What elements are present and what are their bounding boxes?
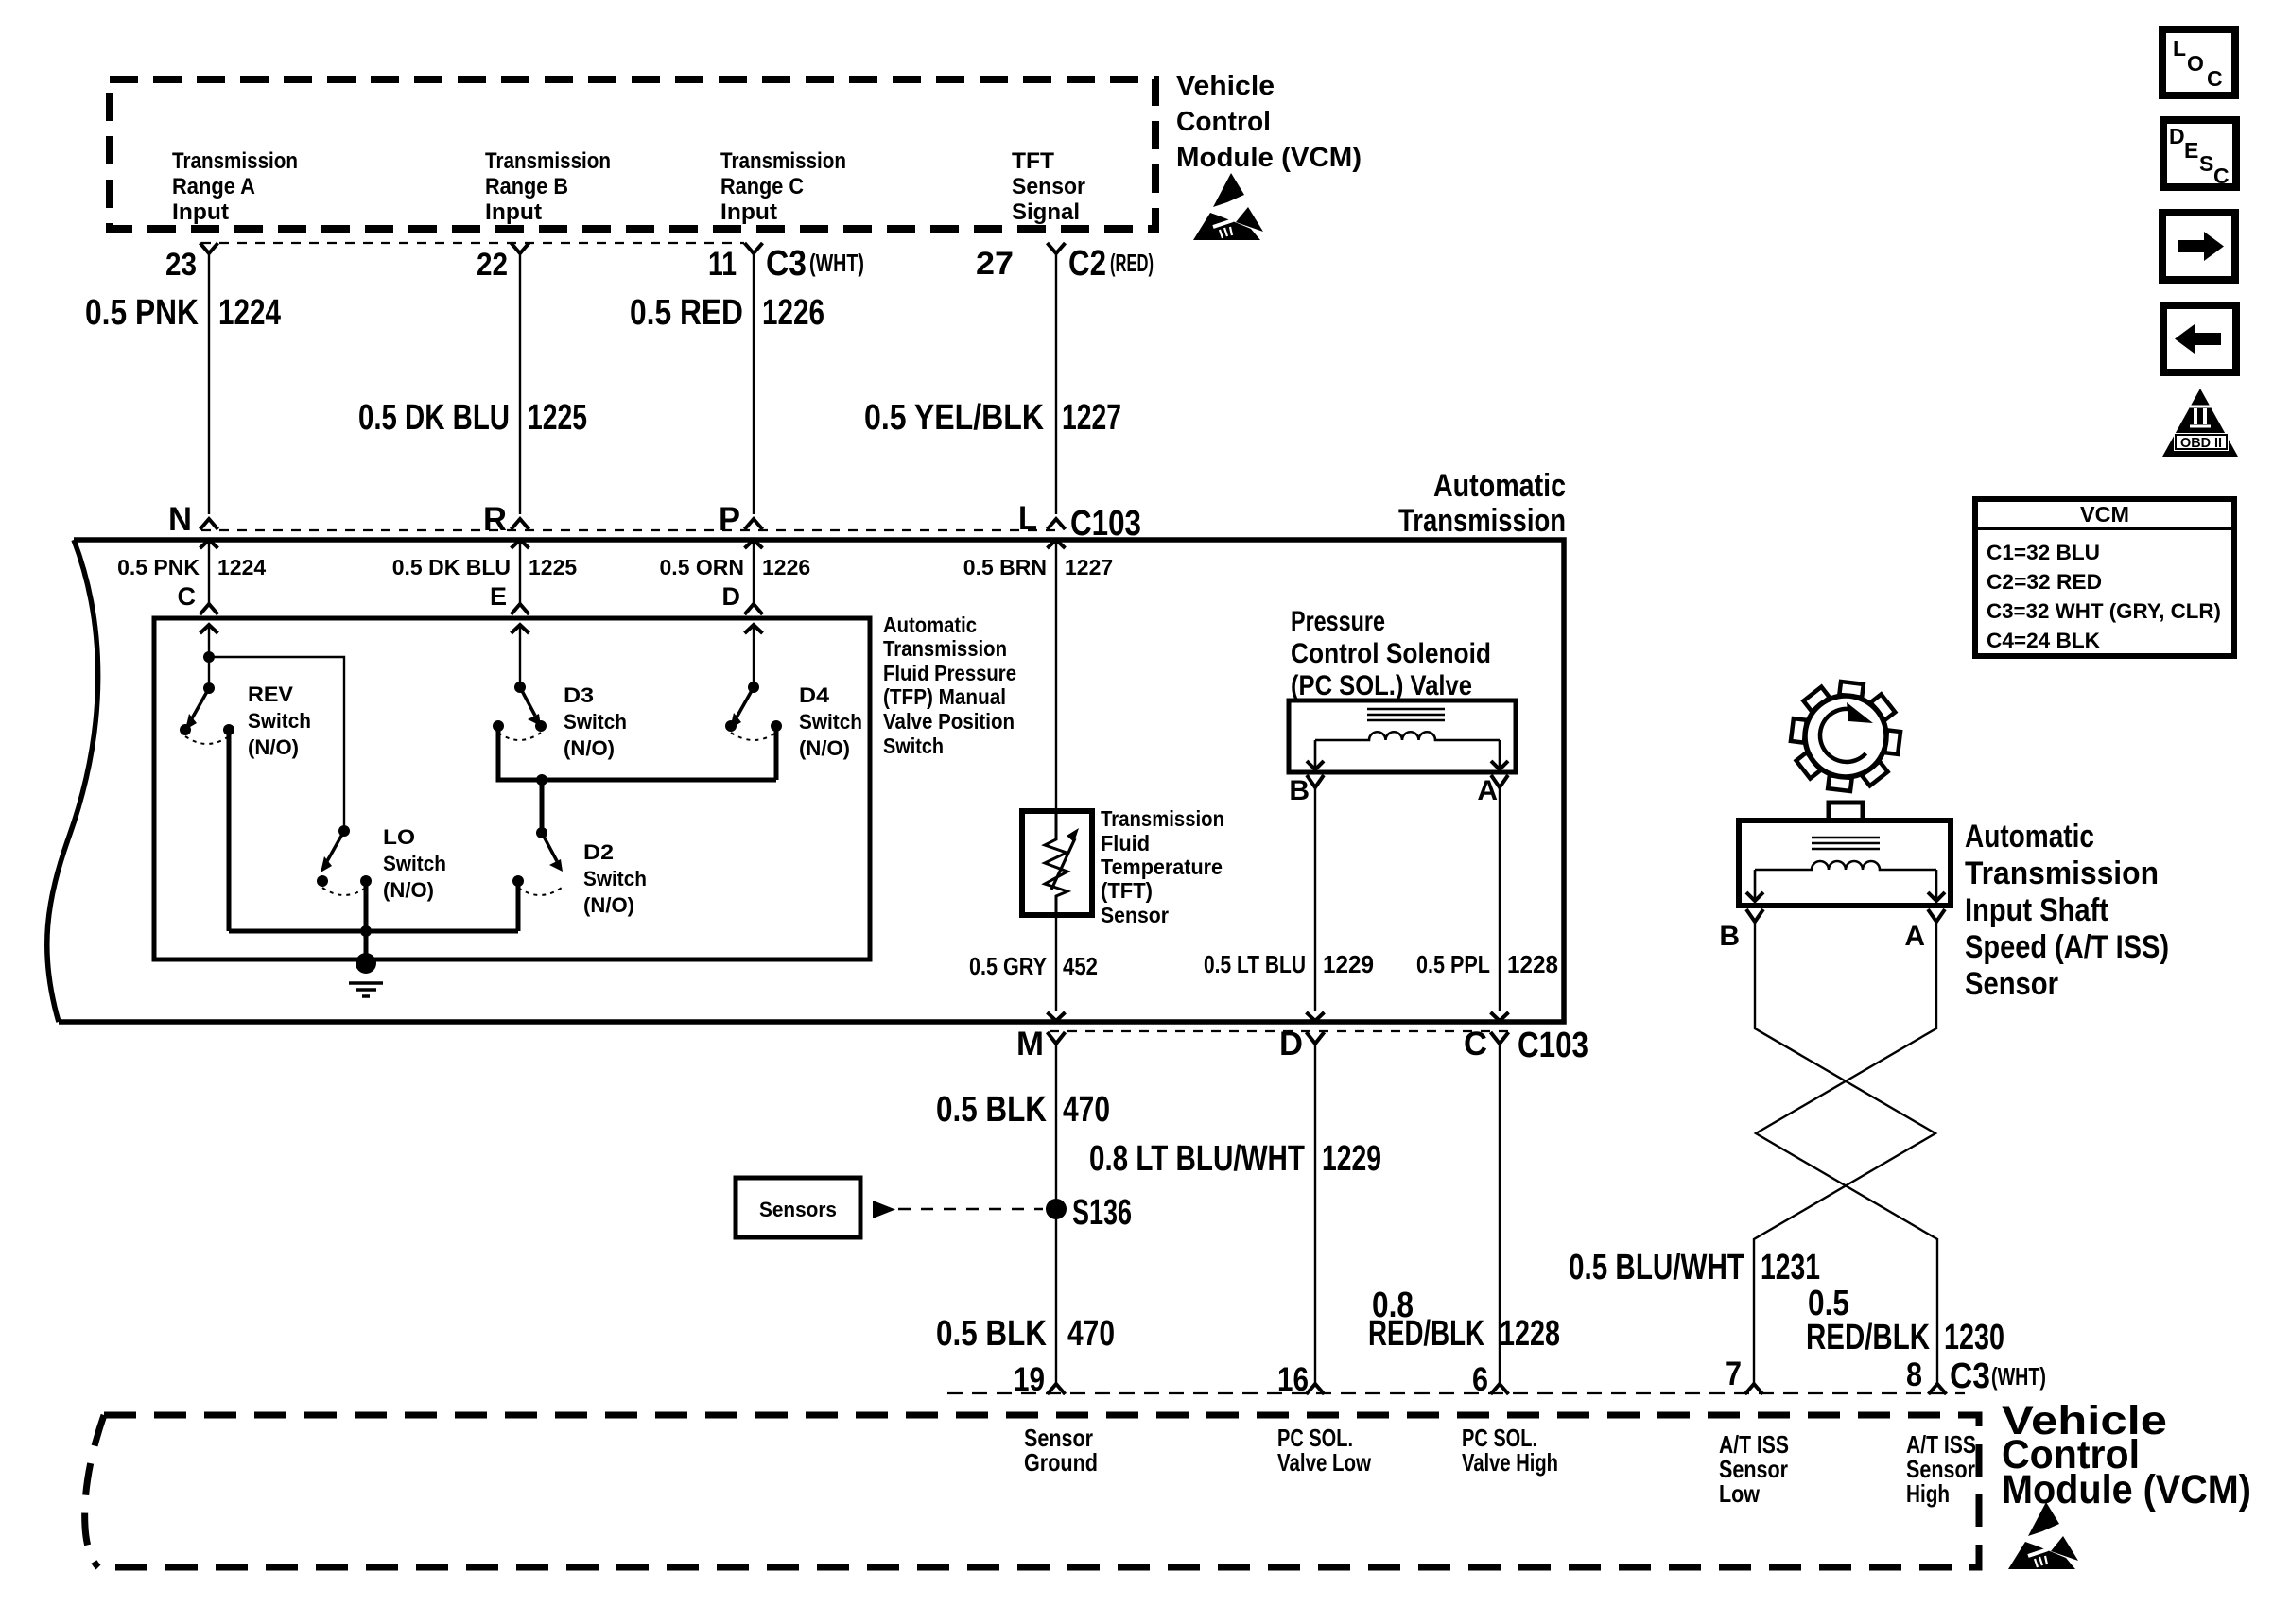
svg-text:0.5 BRN: 0.5 BRN [963,555,1047,579]
svg-text:0.5 BLU/WHT: 0.5 BLU/WHT [1569,1248,1744,1287]
connector label C3 (WHT) bottom [1950,1356,2046,1396]
svg-text:D: D [722,582,741,611]
svg-text:1228: 1228 [1500,1314,1560,1354]
svg-text:Valve High: Valve High [1462,1448,1558,1477]
svg-text:L: L [2173,36,2186,60]
wire label 0.5 BLK 470 (upper) [936,1090,1110,1130]
wire common bus to ground [229,929,518,934]
svg-text:452: 452 [1063,952,1098,980]
svg-text:High: High [1906,1479,1950,1508]
svg-text:Transmission: Transmission [1965,855,2159,891]
svg-text:D4: D4 [799,683,830,707]
svg-text:A: A [1904,921,1925,952]
svg-text:B: B [1719,921,1740,952]
svg-text:Range B: Range B [485,174,568,199]
svg-text:Sensor: Sensor [1965,966,2058,1002]
svg-text:Valve Low: Valve Low [1277,1448,1372,1477]
node: splice S136 [1046,1193,1132,1233]
wire label 0.5 BRN 1227 (inner) [963,555,1113,579]
svg-text:C1=32 BLU: C1=32 BLU [1987,541,2100,564]
svg-text:0.5 RED: 0.5 RED [630,293,743,333]
svg-text:Speed (A/T ISS): Speed (A/T ISS) [1965,929,2169,965]
svg-text:C2=32 RED: C2=32 RED [1987,570,2102,594]
svg-text:1231: 1231 [1761,1248,1820,1287]
wire label 0.5 RED 1226 (upper) [630,293,824,333]
svg-text:Automatic: Automatic [883,613,977,637]
svg-text:M: M [1016,1026,1044,1063]
svg-text:C3=32 WHT (GRY, CLR): C3=32 WHT (GRY, CLR) [1987,599,2221,623]
svg-text:0.5 PNK: 0.5 PNK [117,555,200,579]
svg-text:(N/O): (N/O) [248,735,299,759]
svg-text:VCM: VCM [2080,502,2129,527]
svg-text:R: R [483,501,507,538]
wire M fork below C103 [1048,1032,1066,1394]
svg-text:Pressure: Pressure [1291,606,1385,637]
svg-text:C: C [178,582,197,611]
svg-text:(TFT): (TFT) [1101,878,1153,903]
wire label 0.5 YEL/BLK 1227 (upper) [864,398,1121,438]
icon OBD II triangle [2162,389,2238,457]
wire 1226 upper segment (Range C, pin 11 to P) [745,243,763,529]
svg-text:REV: REV [248,682,293,706]
svg-text:L: L [1018,500,1037,537]
svg-text:C4=24 BLK: C4=24 BLK [1987,629,2100,652]
wire label 0.5 PPL 1228 [1416,950,1558,978]
svg-text:(N/O): (N/O) [799,736,850,760]
svg-text:Range C: Range C [720,174,804,199]
svg-text:Automatic: Automatic [1433,468,1566,504]
svg-text:0.5 DK BLU: 0.5 DK BLU [392,555,511,579]
svg-text:Range A: Range A [172,174,255,199]
svg-text:0.5 PPL: 0.5 PPL [1416,950,1490,978]
wire 1226 into AT box (male pin arrow at P) [745,540,763,614]
svg-text:(N/O): (N/O) [383,878,434,902]
Sensors box [736,1178,860,1237]
svg-text:1224: 1224 [218,293,281,333]
svg-text:Fluid: Fluid [1101,831,1150,855]
svg-text:1224: 1224 [217,555,266,579]
svg-text:C3: C3 [1950,1356,1990,1396]
svg-text:Switch: Switch [799,710,862,734]
wire label 0.5 BLK 470 (lower) [936,1314,1115,1354]
svg-text:(PC SOL.) Valve: (PC SOL.) Valve [1291,670,1472,701]
svg-text:D: D [1279,1026,1303,1063]
svg-text:C2: C2 [1068,244,1106,284]
svg-text:0.5 PNK: 0.5 PNK [85,293,199,333]
wire label 0.8 LT BLU/WHT 1229 [1089,1139,1381,1179]
pin function label: A/T ISS Sensor High [1906,1430,1976,1508]
svg-text:(N/O): (N/O) [564,736,615,760]
pin function label: Sensor Ground [1024,1424,1098,1477]
wire 1225 upper segment (Range B, pin 22 to R) [512,243,529,529]
svg-text:1230: 1230 [1944,1318,2004,1357]
svg-text:C103: C103 [1518,1026,1588,1065]
connector label C2 (RED) [1068,244,1154,284]
svg-text:1227: 1227 [1062,398,1121,438]
svg-text:Switch: Switch [583,867,647,890]
ESD static-sensitive symbol (top VCM) [1193,173,1263,240]
VCM connector table [1975,499,2234,656]
node: ground junction [360,925,372,937]
svg-text:Control: Control [1176,107,1271,137]
D4 switch (N/O) [725,682,782,740]
pin function label: Transmission Range C Input [720,148,846,225]
label: D3 Switch (N/O) [564,683,627,760]
svg-text:Control Solenoid: Control Solenoid [1291,638,1491,669]
svg-text:Automatic: Automatic [1965,819,2094,855]
svg-text:0.5 YEL/BLK: 0.5 YEL/BLK [864,398,1044,438]
svg-text:1229: 1229 [1323,950,1374,978]
svg-text:1227: 1227 [1065,555,1113,579]
wire 1224 upper segment (Range A, pin 23 to N) [200,243,218,529]
svg-text:0.5 DK BLU: 0.5 DK BLU [358,398,510,438]
svg-text:1226: 1226 [762,555,810,579]
ground symbol [349,953,383,996]
svg-text:0.8 LT BLU/WHT: 0.8 LT BLU/WHT [1089,1139,1305,1179]
dashed leader from Sensors box to S136 [873,1201,1043,1218]
D2 switch (N/O) [512,780,563,895]
svg-text:TFT: TFT [1012,148,1054,174]
node: junction on D3-D4 link [536,774,547,786]
wire label 0.5 GRY 452 [969,952,1098,980]
label: D2 Switch (N/O) [583,840,647,917]
svg-text:Transmission: Transmission [485,148,611,174]
label: Transmission Fluid Temperature (TFT) Sensor [1101,806,1224,927]
svg-text:1225: 1225 [529,555,577,579]
label: Vehicle Control Module (VCM) bottom right [2002,1398,2251,1512]
svg-text:0.5 BLK: 0.5 BLK [936,1090,1047,1130]
label: REV Switch (N/O) [248,682,311,759]
VCM top dashed box (Vehicle Control Module) [110,79,1155,229]
svg-text:B: B [1289,775,1310,806]
wire label 0.5 BLU/WHT 1231 [1569,1248,1820,1287]
svg-text:Fluid Pressure: Fluid Pressure [883,661,1016,685]
wire label 0.5 PNK 1224 (upper) [85,293,281,333]
icon arrow right [2162,213,2235,280]
svg-text:Low: Low [1719,1479,1761,1508]
wire 1228 (PC SOL A to C) [1491,775,1509,1021]
svg-text:Switch: Switch [248,709,311,733]
svg-text:LO: LO [383,825,415,849]
wire 452 (TFT to M) [1055,915,1057,1011]
svg-text:(WHT): (WHT) [809,249,864,277]
svg-text:11: 11 [708,246,737,283]
wire D fork below C103 [1307,1032,1325,1394]
svg-text:Transmission: Transmission [720,148,846,174]
svg-text:P: P [719,501,740,538]
wire from D3 left contact down to D2 branch [498,726,776,780]
svg-text:0.5 ORN: 0.5 ORN [660,555,744,579]
label: Pressure Control Solenoid (PC SOL.) Valve [1291,606,1491,701]
svg-text:D: D [2169,124,2185,148]
svg-text:Switch: Switch [383,852,446,875]
svg-text:(N/O): (N/O) [583,893,634,917]
wire E male pin arrow into switch box [512,625,529,687]
label: D4 Switch (N/O) [799,683,862,760]
pin function label: PC SOL. Valve High [1462,1424,1558,1477]
svg-text:Switch: Switch [564,710,627,734]
wire 1227 upper segment (TFT signal, pin 27 to L) [1048,243,1066,529]
wire label 0.5 DK BLU 1225 [358,398,587,438]
wire label 0.5 RED/BLK 1230 [1806,1284,2004,1357]
svg-text:(WHT): (WHT) [1991,1362,2046,1391]
svg-text:Transmission: Transmission [1101,806,1224,831]
label: Vehicle Control Module (VCM) top right [1176,71,1362,173]
connector C103 thin dashed line (bottom of AT box) [1050,1030,1511,1032]
wire 1227 into AT box (male pin arrow at L) down to TFT sensor [1048,540,1066,811]
svg-text:RED/BLK: RED/BLK [1806,1318,1930,1357]
wire from D4 right contact down to link [774,726,779,780]
svg-text:22: 22 [477,247,508,283]
svg-text:Transmission: Transmission [883,636,1007,661]
svg-text:1225: 1225 [528,398,587,438]
A/T ISS sensor body [1739,803,1951,906]
svg-text:Sensor: Sensor [1101,903,1169,927]
svg-text:OBD II: OBD II [2180,435,2222,451]
icon arrow left [2163,305,2236,372]
svg-text:470: 470 [1063,1090,1110,1130]
pin function label: Transmission Range A Input [172,148,298,225]
wire label 0.5 LT BLU 1229 [1204,950,1374,978]
ESD static-sensitive symbol (bottom VCM) [2008,1502,2078,1569]
svg-text:Input: Input [720,199,777,225]
wire branch to LO switch [209,657,344,831]
svg-text:Signal: Signal [1012,199,1080,225]
svg-text:Temperature: Temperature [1101,855,1223,879]
svg-text:7: 7 [1726,1356,1742,1392]
label: LO Switch (N/O) [383,825,446,902]
node: branch junction at C wire [203,651,215,663]
svg-text:1229: 1229 [1322,1139,1381,1179]
svg-text:RED/BLK: RED/BLK [1368,1314,1484,1354]
wire from D2 left contact down [516,881,521,931]
svg-text:C: C [2213,164,2230,188]
wire ISS A (twisted pair to pin 8) [1756,909,1947,1394]
svg-text:27: 27 [976,246,1014,282]
svg-text:E: E [2184,138,2198,163]
svg-text:1226: 1226 [762,293,824,333]
wire label 0.5 DK BLU 1225 (inner) [392,555,578,579]
svg-text:Transmission: Transmission [1398,503,1566,539]
connector face thin dashed line (bottom VCM) [947,1392,1965,1394]
svg-text:470: 470 [1067,1314,1115,1354]
svg-text:N: N [168,501,192,538]
svg-text:Ground: Ground [1024,1448,1098,1477]
REV switch (N/O) [180,657,234,744]
svg-text:Transmission: Transmission [172,148,298,174]
wire from LO switch contact to ground [364,881,369,959]
connector face C2/C3 thin dashed line (top) [201,242,744,244]
wire ISS B (twisted pair to pin 7) [1745,909,1936,1394]
svg-text:1228: 1228 [1507,950,1558,978]
svg-text:Vehicle: Vehicle [1176,71,1275,101]
wire label 0.5 PNK 1224 (inner) [117,555,266,579]
wire C male pin arrow into switch box [200,625,218,657]
svg-text:E: E [490,582,507,611]
svg-text:8: 8 [1906,1356,1922,1393]
svg-text:0.5 GRY: 0.5 GRY [969,952,1047,980]
svg-text:S: S [2199,151,2213,176]
wire label 0.8 RED/BLK 1228 [1368,1286,1560,1354]
TFT sensor (thermistor) [1022,811,1092,915]
wire C fork below C103 [1491,1032,1509,1394]
svg-text:23: 23 [165,247,197,283]
wire 1225 into AT box (male pin arrow at R) [512,540,529,614]
svg-text:Valve Position: Valve Position [883,709,1015,734]
svg-text:Input: Input [172,199,229,225]
svg-text:D2: D2 [583,840,614,864]
wire label 0.5 ORN 1226 (inner) [660,555,811,579]
svg-text:Sensor: Sensor [1012,174,1085,199]
icon DESC [2163,120,2236,188]
svg-text:Module (VCM): Module (VCM) [2002,1467,2251,1512]
connector C103 thin dashed line (top of Automatic Transmission) [201,529,1056,531]
Automatic Transmission box [47,540,1564,1022]
wire D male pin arrow into switch box [745,625,763,687]
Pressure Control Solenoid (PC SOL.) Valve [1289,700,1516,772]
pin function label: TFT Sensor Signal [1012,148,1085,225]
pin function label: Transmission Range B Input [485,148,611,225]
svg-text:D3: D3 [564,683,594,707]
pin function label: PC SOL. Valve Low [1277,1424,1372,1477]
svg-text:C3: C3 [766,244,807,284]
svg-text:(TFP) Manual: (TFP) Manual [883,684,1006,709]
svg-text:S136: S136 [1072,1193,1132,1233]
connector label C3 (WHT) [766,244,864,284]
wire from REV switch contact down [227,730,232,931]
wire 1224 into AT box (male pin arrow at N) [200,540,218,614]
pin function label: A/T ISS Sensor Low [1719,1430,1789,1508]
gear wheel icon (input shaft) [1785,676,1905,796]
LO switch (N/O) [317,825,372,895]
VCM bottom dashed box (Vehicle Control Module) [85,1415,1979,1567]
svg-text:C: C [1464,1026,1487,1063]
label: Automatic Transmission Fluid Pressure (TFP) Manual Valve Position Switch [883,613,1016,758]
icon LOC (top right) [2162,29,2235,95]
svg-text:C: C [2207,66,2223,91]
TFP manual valve position switch box [154,618,870,959]
svg-text:Input: Input [485,199,542,225]
label: Automatic Transmission Input Shaft Speed (A/T ISS) Sensor [1965,819,2169,1002]
svg-text:O: O [2187,51,2204,76]
label: Automatic Transmission [1398,468,1566,539]
svg-text:Input Shaft: Input Shaft [1965,892,2108,928]
svg-text:Sensors: Sensors [759,1198,837,1221]
D3 switch (N/O) [493,682,547,740]
svg-text:(RED): (RED) [1110,249,1154,277]
wire 1229 (PC SOL B to D) [1307,775,1325,1021]
svg-text:Switch: Switch [883,734,944,758]
svg-text:Module (VCM): Module (VCM) [1176,143,1362,173]
svg-text:0.5 LT BLU: 0.5 LT BLU [1204,950,1306,978]
svg-text:0.5 BLK: 0.5 BLK [936,1314,1047,1354]
